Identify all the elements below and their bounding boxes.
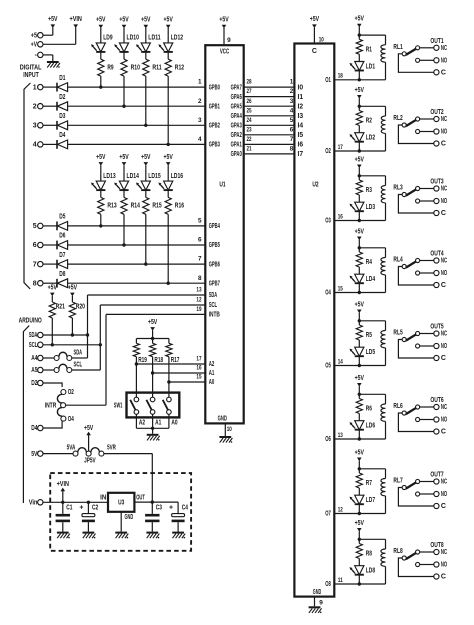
svg-text:GND: GND: [313, 589, 321, 596]
wire R14 to line: [123, 214, 125, 245]
node top of block 5: [358, 319, 361, 322]
svg-text:OUT5: OUT5: [430, 324, 443, 331]
svg-text:D4: D4: [59, 132, 65, 139]
wire SW1 to ground bus: [136, 414, 169, 434]
LED LD13: [91, 173, 116, 190]
junction node line R10: [122, 105, 125, 108]
voltage regulator U3: [100, 493, 145, 512]
svg-text:R18: R18: [154, 357, 163, 364]
svg-text:+5V: +5V: [310, 16, 320, 23]
capacitor C3: [145, 502, 162, 531]
pin 3 GPB2 of U1: [198, 117, 220, 130]
wire LED LD4 to output node: [358, 283, 360, 292]
svg-text:GPA3: GPA3: [231, 123, 242, 130]
svg-text:D5: D5: [59, 214, 65, 221]
svg-text:8: 8: [198, 275, 202, 282]
junction R17-A0: [167, 380, 170, 383]
IC U1 (I/O expander): [205, 45, 243, 423]
svg-text:A2: A2: [139, 420, 145, 427]
wire +5V to relay coil 6: [359, 393, 385, 395]
svg-text:D2: D2: [59, 94, 65, 101]
terminal C (OUT5): [434, 355, 446, 362]
LED LD15: [136, 173, 161, 190]
wire U2 O8 line: [334, 583, 385, 585]
svg-text:A1: A1: [155, 420, 161, 427]
svg-text:+5V: +5V: [141, 154, 151, 161]
LED LD5: [350, 340, 376, 356]
jumper pad INTR: [45, 402, 66, 409]
node top of block 3: [358, 174, 361, 177]
bracket digital input group: [24, 83, 30, 289]
svg-text:NC: NC: [441, 258, 447, 265]
terminal NO (OUT4): [434, 270, 448, 277]
node output O4: [358, 291, 361, 294]
svg-text:8: 8: [33, 280, 37, 287]
svg-text:D7: D7: [59, 252, 65, 259]
junction SW1 ground bus: [151, 427, 154, 430]
wire U3 OUT line: [134, 501, 178, 503]
power symbol +5V (LD14): [119, 154, 129, 181]
svg-text:C: C: [441, 574, 446, 581]
node top of block 2: [358, 105, 361, 108]
svg-text:LD3: LD3: [366, 204, 375, 211]
svg-text:13: 13: [196, 287, 201, 294]
svg-text:GPB5: GPB5: [209, 242, 220, 249]
svg-text:LD7: LD7: [366, 497, 375, 504]
svg-text:A0: A0: [209, 379, 215, 386]
svg-text:R19: R19: [138, 357, 147, 364]
wire SCL net: [43, 305, 205, 370]
pin O4 of U2: [325, 285, 343, 296]
svg-text:C: C: [441, 70, 446, 77]
terminal NC (OUT7): [434, 479, 447, 486]
svg-text:13: 13: [338, 432, 343, 439]
svg-text:I4: I4: [298, 123, 304, 130]
terminal C (OUT2): [434, 141, 446, 148]
svg-text:RL5: RL5: [393, 330, 402, 337]
wire GPA5 to U2 pin 3: [244, 98, 295, 106]
pin O2 of U2: [325, 144, 343, 155]
pin 5 GPB4 of U1: [198, 218, 220, 231]
wire LED LD7 to output node: [358, 504, 360, 513]
wire 5V to jumper: [43, 453, 73, 455]
pin 19 INTB of U1: [196, 306, 220, 319]
svg-text:R3: R3: [366, 187, 372, 194]
wire +5V to relay coil 1: [359, 34, 385, 36]
svg-text:LD6: LD6: [366, 423, 375, 430]
svg-text:NC: NC: [441, 331, 447, 338]
wire LED LD3 to output node: [358, 211, 360, 220]
wire LED LD6 to output node: [358, 430, 360, 439]
pin 13 SDA of U1: [196, 287, 217, 300]
svg-text:GPB3: GPB3: [209, 142, 220, 149]
svg-text:+5V: +5V: [355, 301, 365, 308]
svg-text:GPB2: GPB2: [209, 123, 220, 130]
ground (C4): [172, 532, 185, 539]
LED LD12: [158, 35, 183, 52]
wire 5VR to regulator output: [104, 454, 152, 503]
wire +5V to relay coil 2: [359, 105, 385, 107]
pin 15 A0 of U1: [196, 374, 214, 387]
terminal NC (OUT3): [434, 186, 447, 193]
relay contacts RL1: [398, 46, 433, 73]
power symbol +VIN (regulator input): [57, 481, 69, 502]
node output O6: [358, 437, 361, 440]
terminal C (OUT3): [434, 210, 446, 217]
svg-text:C1: C1: [66, 504, 72, 511]
jumper A5-SCL: [43, 361, 100, 372]
junction node line R14: [122, 243, 125, 246]
svg-text:LD8: LD8: [366, 568, 375, 575]
svg-text:SDA: SDA: [73, 349, 82, 356]
wire Vin line: [43, 501, 108, 503]
terminal C (OUT4): [434, 282, 446, 289]
relay coil RL8: [381, 548, 403, 584]
svg-text:LD15: LD15: [148, 173, 160, 180]
DIP switch SW1: [114, 393, 180, 418]
svg-text:+5V: +5V: [164, 154, 174, 161]
svg-text:D6: D6: [59, 233, 65, 240]
wire GPA4 to U2 pin 4: [244, 107, 295, 116]
svg-text:4: 4: [33, 142, 37, 149]
relay contacts RL7: [398, 479, 433, 506]
jumper pad O4: [61, 416, 74, 423]
svg-text:10: 10: [227, 426, 232, 433]
svg-text:R6: R6: [366, 406, 372, 413]
terminal NO (OUT1): [434, 58, 448, 65]
wire LD9 to R9: [100, 52, 102, 59]
junction node line R12: [167, 143, 170, 146]
svg-text:O2: O2: [325, 148, 331, 155]
power symbol +5V (relay block 7): [355, 449, 365, 469]
junction Vin-C1: [61, 501, 64, 504]
terminal NC (OUT5): [434, 331, 447, 338]
resistor R4: [356, 248, 372, 267]
svg-text:A1: A1: [209, 370, 215, 377]
resistor R8: [356, 539, 372, 558]
svg-text:+5V: +5V: [96, 154, 106, 161]
power symbol +5V (relay block 5): [355, 301, 365, 321]
svg-text:C2: C2: [92, 504, 98, 511]
wire R19 to A2 and SW1: [135, 357, 137, 398]
resistor R5: [356, 321, 372, 340]
svg-text:O7: O7: [325, 511, 331, 518]
svg-text:OUT8: OUT8: [430, 542, 443, 549]
svg-text:O4: O4: [68, 416, 74, 423]
svg-text:LD2: LD2: [366, 135, 375, 142]
svg-text:SCL: SCL: [73, 361, 82, 368]
bracket arduino group: [23, 326, 29, 503]
wire +5V bus to R19 R18 R17: [136, 338, 169, 340]
svg-text:R12: R12: [175, 65, 184, 72]
wire R11 to line: [145, 76, 147, 125]
resistor R15: [143, 197, 162, 214]
terminal NO (OUT8): [434, 562, 448, 569]
pin 28 GPA7 of U1: [231, 79, 252, 92]
svg-text:O6: O6: [325, 436, 331, 443]
ground (C2): [83, 532, 96, 539]
svg-text:C: C: [441, 355, 446, 362]
svg-text:6: 6: [198, 237, 202, 244]
junction node line R16: [167, 282, 170, 285]
wire R10 to line: [123, 76, 125, 106]
svg-text:SDA: SDA: [209, 292, 217, 299]
svg-text:ARDUINO: ARDUINO: [19, 317, 42, 324]
LED LD4: [350, 267, 376, 283]
wire U2 O2 line: [334, 150, 385, 152]
LED LD10: [114, 35, 139, 52]
svg-text:GPB7: GPB7: [209, 280, 220, 287]
power symbol +5V (LD16): [164, 154, 174, 181]
svg-text:5: 5: [33, 223, 37, 230]
wire GPA3 to U2 pin 5: [244, 117, 295, 125]
svg-text:6: 6: [33, 242, 37, 249]
svg-text:7: 7: [198, 256, 202, 263]
svg-text:4: 4: [198, 136, 202, 143]
svg-text:+5V: +5V: [355, 375, 365, 382]
svg-text:5: 5: [198, 218, 202, 225]
power symbol +5V (LD15): [141, 154, 151, 181]
svg-text:GPB4: GPB4: [209, 223, 220, 230]
wire R16 to line: [167, 214, 169, 283]
svg-text:+5V: +5V: [355, 87, 365, 94]
svg-text:O5: O5: [325, 363, 331, 370]
LED LD6: [350, 414, 376, 430]
svg-text:R21: R21: [56, 304, 65, 311]
svg-text:11: 11: [338, 577, 343, 584]
wire R13 to line: [100, 214, 102, 226]
pin 4 GPB3 of U1: [198, 136, 220, 149]
svg-text:+: +: [169, 504, 173, 511]
wire R12 to line: [167, 76, 169, 144]
svg-text:R11: R11: [152, 65, 161, 72]
svg-text:LD1: LD1: [366, 63, 375, 70]
svg-text:6: 6: [290, 126, 294, 133]
svg-text:A0: A0: [171, 420, 177, 427]
ground (input common): [47, 61, 60, 68]
svg-text:LD14: LD14: [127, 173, 139, 180]
svg-text:NC: NC: [441, 45, 447, 52]
svg-text:OUT2: OUT2: [430, 109, 443, 116]
node output O2: [358, 149, 361, 152]
svg-text:R14: R14: [131, 203, 140, 210]
svg-text:A2: A2: [209, 361, 215, 368]
power symbol +5V (LD12): [164, 17, 174, 43]
svg-text:5VR: 5VR: [107, 445, 116, 452]
svg-text:LD16: LD16: [171, 173, 183, 180]
svg-text:GPA2: GPA2: [231, 132, 242, 139]
svg-text:JP5V: JP5V: [84, 458, 96, 465]
wire R9 to line: [100, 76, 102, 87]
pin 23 GPA2 of U1: [231, 126, 252, 139]
svg-text:NC: NC: [441, 404, 447, 411]
svg-text:SDA: SDA: [29, 332, 38, 339]
resistor R14: [121, 197, 140, 214]
wire input line 4: [43, 143, 57, 145]
svg-text:R9: R9: [107, 65, 113, 72]
svg-text:+5V: +5V: [141, 17, 151, 24]
svg-text:RL2: RL2: [393, 115, 402, 122]
svg-text:INTR: INTR: [45, 402, 57, 409]
svg-text:16: 16: [338, 213, 343, 220]
wire +5V to relay coil 7: [359, 468, 385, 470]
wire input line 8: [43, 282, 57, 284]
jumper A4-SDA: [43, 349, 87, 360]
svg-text:19: 19: [196, 306, 201, 313]
ground (SW1): [147, 434, 160, 441]
ground (U2 GND): [309, 606, 322, 613]
wire D4 to jumper pad: [43, 421, 62, 428]
resistor R6: [356, 394, 372, 413]
wire input line 2: [43, 105, 57, 107]
svg-text:5V: 5V: [31, 451, 37, 458]
ground (U1 GND): [219, 436, 232, 443]
wire GPA0 to U2 pin 8: [244, 146, 295, 154]
svg-text:3: 3: [290, 98, 294, 105]
svg-text:NO: NO: [441, 417, 448, 424]
svg-text:U3: U3: [118, 500, 124, 507]
wire U2 O4 line: [334, 292, 385, 294]
power symbol +5V (relay block 6): [355, 375, 365, 395]
LED LD1: [350, 54, 376, 70]
ground (U3): [115, 532, 128, 539]
svg-text:NO: NO: [441, 270, 448, 277]
wire A0 line: [169, 381, 205, 383]
node top of block 6: [358, 393, 361, 396]
resistor R9: [98, 59, 114, 76]
LED LD3: [350, 195, 376, 211]
svg-text:SCL: SCL: [209, 302, 218, 309]
svg-text:5: 5: [290, 117, 294, 124]
svg-text:D3: D3: [59, 113, 65, 120]
resistor R12: [165, 59, 184, 76]
svg-text:+V: +V: [31, 41, 37, 48]
terminal NO (OUT2): [434, 129, 448, 136]
power symbol +5V (LD11): [141, 17, 151, 43]
svg-text:R16: R16: [175, 203, 184, 210]
relay coil RL5: [381, 330, 403, 366]
node top of block 8: [358, 538, 361, 541]
labels A2 A1 A0 under SW1: [139, 420, 178, 427]
svg-text:OUT1: OUT1: [430, 38, 443, 45]
svg-text:8: 8: [290, 146, 294, 153]
ground (C3): [146, 532, 159, 539]
svg-text:+: +: [79, 504, 83, 511]
terminal NO (OUT3): [434, 198, 448, 205]
wire U2 O5 line: [334, 365, 385, 367]
terminal C (OUT7): [434, 503, 446, 510]
wire LD10 to R10: [123, 52, 125, 59]
svg-text:+5V: +5V: [355, 520, 365, 527]
svg-text:NC: NC: [441, 186, 447, 193]
svg-text:+5V: +5V: [355, 449, 365, 456]
svg-text:+5V: +5V: [219, 17, 229, 24]
junction R18-A1: [151, 371, 154, 374]
power symbol +5V (relay block 8): [355, 520, 365, 540]
wire LD15 to R15: [145, 190, 147, 197]
wire LD11 to R11: [145, 52, 147, 59]
wire A2 line: [136, 363, 205, 365]
svg-text:NO: NO: [441, 491, 448, 498]
wire SDA net: [43, 295, 205, 358]
jumper arc O2-INTR: [57, 394, 62, 403]
resistor R3: [356, 176, 372, 195]
svg-text:I7: I7: [298, 151, 304, 158]
svg-text:OUT3: OUT3: [430, 179, 443, 186]
power symbol +5V (U1 VCC): [219, 17, 229, 46]
pin 17 A2 of U1: [196, 356, 214, 369]
svg-text:RL1: RL1: [393, 44, 402, 51]
terminal NC (OUT8): [434, 549, 447, 556]
pin 26 GPA5 of U1: [231, 98, 252, 111]
wire LED LD5 to output node: [358, 356, 360, 365]
svg-text:R8: R8: [366, 551, 372, 558]
svg-text:RL6: RL6: [393, 403, 402, 410]
relay coil RL4: [381, 257, 403, 293]
svg-text:O3: O3: [325, 218, 331, 225]
svg-text:R2: R2: [366, 118, 372, 125]
wire +5V to relay coil 4: [359, 247, 385, 249]
ground (C1): [57, 532, 70, 539]
pin O8 of U2: [325, 577, 343, 588]
wire LED LD2 to output node: [358, 142, 360, 151]
svg-text:2: 2: [290, 88, 294, 95]
wire GPA1 to U2 pin 7: [244, 136, 295, 144]
svg-text:GND: GND: [218, 416, 227, 423]
junction Vin-C2: [87, 501, 90, 504]
svg-text:1: 1: [33, 84, 37, 91]
svg-text:C: C: [441, 282, 446, 289]
svg-text:NC: NC: [441, 549, 447, 556]
svg-text:INPUT: INPUT: [23, 72, 39, 79]
svg-text:D4: D4: [31, 425, 37, 432]
svg-text:IN: IN: [100, 494, 106, 501]
svg-text:1: 1: [290, 79, 294, 86]
svg-text:+5V: +5V: [68, 284, 78, 291]
svg-text:I2: I2: [298, 103, 304, 110]
svg-text:GPA6: GPA6: [231, 94, 242, 101]
jumper pad O2: [61, 389, 74, 396]
resistor R1: [356, 35, 372, 54]
svg-text:GPB0: GPB0: [209, 84, 220, 91]
junction R19-A2: [135, 362, 138, 365]
wire R17 to A0 and SW1: [168, 357, 170, 398]
svg-text:R1: R1: [366, 46, 372, 53]
svg-text:VCC: VCC: [220, 48, 229, 55]
relay coil RL1: [381, 44, 403, 80]
svg-text:12: 12: [196, 297, 201, 304]
resistor R17: [166, 339, 180, 365]
svg-text:14: 14: [338, 358, 343, 365]
wire input line 7: [43, 263, 57, 265]
junction R21-SCL: [51, 343, 54, 346]
junction R20-SDA: [71, 333, 74, 336]
svg-text:4: 4: [290, 107, 294, 114]
pin 6 GPB5 of U1: [198, 237, 220, 250]
svg-text:21: 21: [247, 146, 252, 153]
svg-text:12: 12: [338, 506, 343, 513]
power symbol +5V (relay block 4): [355, 228, 365, 248]
svg-text:NO: NO: [441, 562, 448, 569]
power symbol +5V (top-left): [48, 16, 58, 35]
power symbol +5V (relay block 2): [355, 87, 365, 107]
wire +V terminal to +VIN: [43, 43, 75, 45]
resistor R11: [143, 59, 162, 76]
svg-text:+5V: +5V: [84, 425, 94, 432]
junction OUT-C3: [151, 500, 154, 503]
svg-text:NO: NO: [441, 129, 448, 136]
svg-text:GPA1: GPA1: [231, 142, 242, 149]
